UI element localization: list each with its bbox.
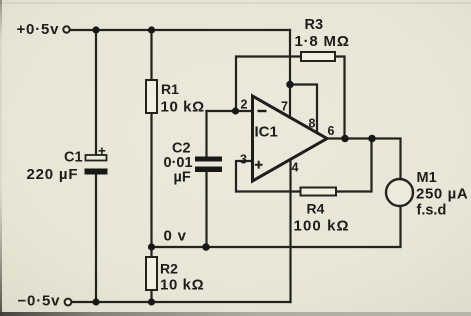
svg-text:0 v: 0 v bbox=[164, 228, 187, 245]
terminal -0.5v bbox=[65, 299, 72, 306]
svg-text:100 kΩ: 100 kΩ bbox=[294, 218, 350, 235]
wire C1 column bottom bbox=[95, 175, 97, 303]
wire pin 8 branch bbox=[290, 85, 317, 134]
resistor R4 bbox=[294, 188, 350, 235]
resistor R1 bbox=[146, 80, 205, 116]
svg-text:R4: R4 bbox=[307, 201, 325, 217]
svg-text:7: 7 bbox=[281, 100, 288, 114]
svg-text:IC1: IC1 bbox=[255, 124, 278, 141]
svg-text:2: 2 bbox=[241, 98, 248, 112]
svg-text:220 µF: 220 µF bbox=[27, 166, 79, 183]
wire output to meter bbox=[327, 139, 401, 179]
svg-text:1·8 MΩ: 1·8 MΩ bbox=[295, 33, 350, 50]
svg-text:R1: R1 bbox=[161, 81, 179, 97]
wire R4 right to output node bbox=[336, 139, 372, 192]
pin 2 label bbox=[241, 98, 248, 112]
wire pin 4 to -0.5V rail bbox=[289, 160, 291, 303]
svg-text:10 kΩ: 10 kΩ bbox=[160, 277, 204, 294]
pin 3 label bbox=[240, 153, 247, 167]
wire R3 right branch to output bbox=[335, 57, 345, 139]
svg-text:−0·5v: −0·5v bbox=[18, 293, 61, 310]
capacitor C1 electrolytic bbox=[27, 148, 108, 184]
capacitor C2 bbox=[164, 141, 223, 186]
svg-text:M1: M1 bbox=[417, 170, 437, 186]
pin 6 label bbox=[328, 124, 335, 138]
node -0.5v label bbox=[18, 293, 61, 310]
wire V+ drop to pin 7 bbox=[289, 30, 291, 118]
node +0.5v label bbox=[17, 21, 60, 38]
svg-text:10 kΩ: 10 kΩ bbox=[161, 99, 205, 116]
svg-text:C1: C1 bbox=[64, 150, 83, 166]
wire bottom -0.5V rail bbox=[72, 301, 291, 303]
node junction dots bbox=[92, 26, 375, 305]
wire C2 top lead bbox=[205, 111, 207, 157]
wire R2 leads bbox=[150, 247, 152, 302]
svg-text:f.s.d: f.s.d bbox=[417, 203, 447, 219]
terminal +0.5v bbox=[63, 26, 69, 32]
svg-text:R3: R3 bbox=[305, 17, 324, 33]
svg-text:+0·5v: +0·5v bbox=[17, 21, 60, 38]
svg-text:250 µA: 250 µA bbox=[416, 186, 468, 203]
svg-text:8: 8 bbox=[309, 117, 316, 131]
pin 8 label bbox=[309, 117, 316, 131]
wire C2 bottom lead bbox=[205, 172, 207, 247]
svg-text:µF: µF bbox=[174, 170, 191, 186]
wire R1 bottom to 0V node bbox=[150, 112, 152, 247]
resistor R2 bbox=[146, 257, 204, 294]
resistor R3 bbox=[295, 17, 350, 61]
svg-text:6: 6 bbox=[328, 124, 335, 138]
svg-text:4: 4 bbox=[292, 161, 299, 175]
node 0V label bbox=[164, 228, 187, 245]
wire top +0.5V rail bbox=[70, 29, 291, 31]
svg-text:R2: R2 bbox=[160, 261, 178, 277]
op-amp IC1 bbox=[253, 96, 328, 181]
pin 4 label bbox=[292, 161, 299, 175]
wire 0V line to meter bbox=[152, 207, 401, 248]
wire pin 2 input line bbox=[207, 110, 253, 112]
wire R1 top lead bbox=[150, 30, 152, 79]
pin 7 label bbox=[281, 100, 288, 114]
wire pin 3 to R4 left bbox=[236, 161, 301, 192]
wire R3 left branch from pin 2 bbox=[236, 57, 301, 112]
svg-text:3: 3 bbox=[240, 153, 247, 167]
meter M1 bbox=[386, 170, 468, 219]
wire C1 column top bbox=[95, 30, 97, 155]
